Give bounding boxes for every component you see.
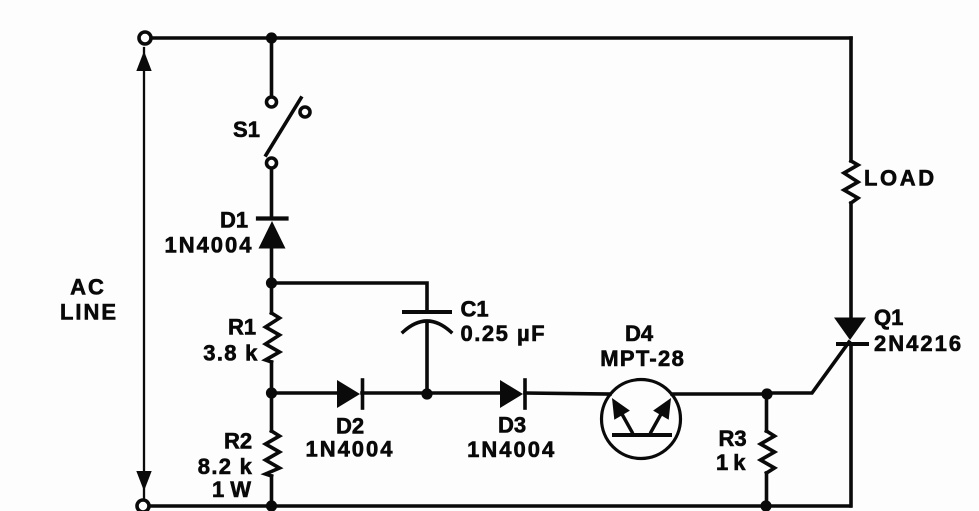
diode D3 xyxy=(500,380,525,408)
svg-text:D1: D1 xyxy=(220,208,248,233)
trigger device D4 xyxy=(602,380,681,459)
svg-text:R1: R1 xyxy=(228,315,256,340)
wire node C to D3 xyxy=(427,391,500,395)
svg-text:8.2 k: 8.2 k xyxy=(198,454,253,479)
wire node A to C1 xyxy=(272,283,428,311)
node C xyxy=(421,388,432,399)
svg-text:MPT-28: MPT-28 xyxy=(600,346,685,371)
svg-text:S1: S1 xyxy=(233,117,260,142)
SCR Q1 xyxy=(834,318,867,345)
wire S1 branch upper xyxy=(270,38,274,96)
svg-text:3.8 k: 3.8 k xyxy=(203,341,258,366)
wire D2 to node C xyxy=(362,391,427,395)
svg-text:1 k: 1 k xyxy=(716,450,746,475)
arrowhead AC top xyxy=(136,51,151,71)
wire right middle xyxy=(849,203,853,319)
wire bottom xyxy=(149,504,850,508)
wire gate of Q1 xyxy=(767,342,849,393)
diode D2 xyxy=(337,380,363,408)
svg-text:R2: R2 xyxy=(224,429,252,454)
svg-text:R3: R3 xyxy=(718,426,746,451)
node R2 bottom xyxy=(266,500,277,511)
svg-text:LINE: LINE xyxy=(60,300,118,325)
junction dot top (S1 branch) xyxy=(266,32,277,43)
wire right upper xyxy=(849,38,853,161)
svg-text:1 W: 1 W xyxy=(212,477,251,502)
svg-text:1N4004: 1N4004 xyxy=(164,233,253,258)
resistor R3 xyxy=(761,394,775,506)
svg-text:1N4004: 1N4004 xyxy=(467,437,556,462)
wire node B to D2 xyxy=(272,391,338,395)
svg-text:C1: C1 xyxy=(460,297,488,322)
capacitor C1 xyxy=(403,312,451,393)
svg-text:D3: D3 xyxy=(498,413,526,438)
wire D4 to node D xyxy=(672,392,767,396)
terminal top-left xyxy=(139,32,151,44)
svg-text:D4: D4 xyxy=(625,321,654,346)
arrowhead AC bottom xyxy=(136,471,151,491)
switch S1 xyxy=(266,97,310,168)
node B xyxy=(266,387,277,398)
node R3 bottom xyxy=(760,500,771,511)
node D xyxy=(761,388,772,399)
svg-text:AC: AC xyxy=(70,275,106,300)
resistor R1 xyxy=(266,283,280,393)
wire switch to D1 xyxy=(270,169,274,217)
svg-text:LOAD: LOAD xyxy=(864,166,937,191)
terminal bottom-left xyxy=(137,500,149,511)
wire D3 to D4 xyxy=(525,393,610,394)
node A xyxy=(266,277,277,288)
resistor R2 xyxy=(266,393,280,506)
wire AC line vertical xyxy=(143,48,145,499)
svg-text:Q1: Q1 xyxy=(874,305,903,330)
svg-text:1N4004: 1N4004 xyxy=(305,437,394,462)
wire top xyxy=(151,36,851,40)
wire right lower xyxy=(849,345,853,506)
diode D1 xyxy=(258,219,287,249)
svg-text:0.25 µF: 0.25 µF xyxy=(461,321,547,346)
svg-text:2N4216: 2N4216 xyxy=(874,331,963,356)
svg-text:D2: D2 xyxy=(336,414,364,439)
resistor LOAD xyxy=(844,161,858,203)
wire D1 to node A xyxy=(270,248,274,283)
